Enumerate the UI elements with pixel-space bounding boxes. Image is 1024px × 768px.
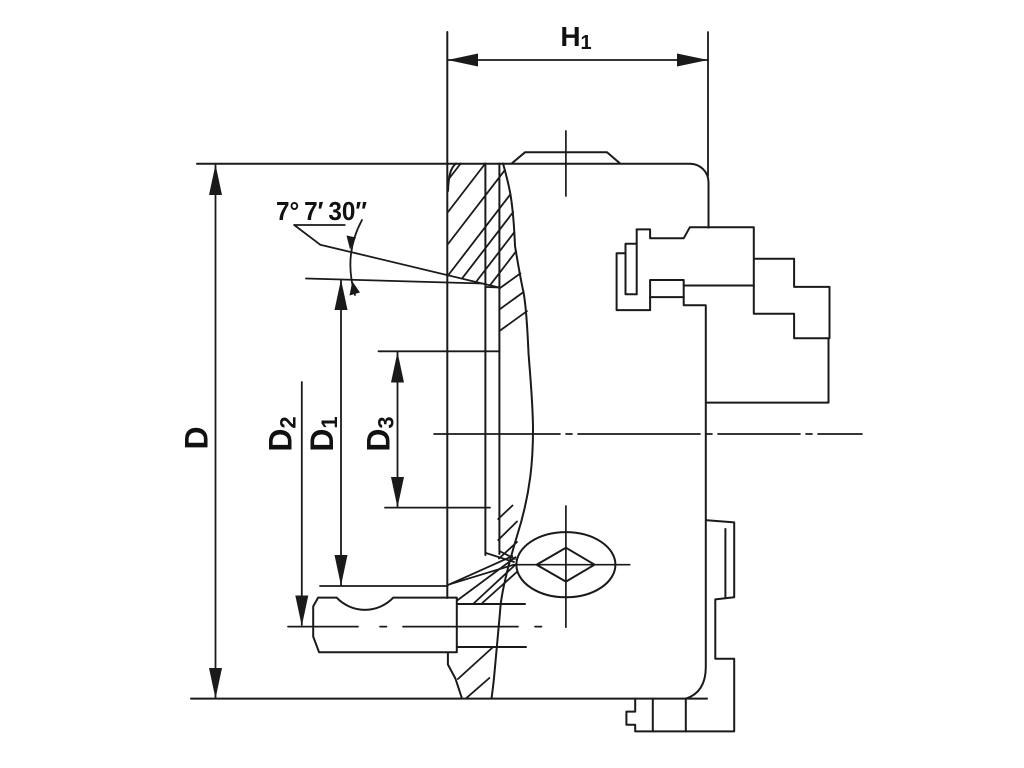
svg-text:7° 7′ 30″: 7° 7′ 30″ [276, 196, 367, 226]
svg-text:D: D [179, 426, 215, 449]
